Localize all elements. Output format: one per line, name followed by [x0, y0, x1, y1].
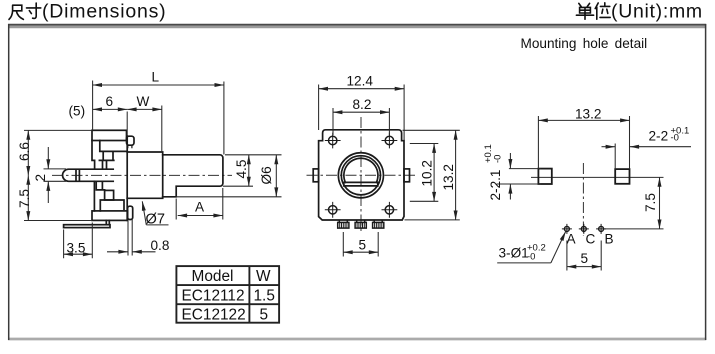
- svg-text:(5): (5): [69, 104, 86, 119]
- svg-text:2-2.1: 2-2.1: [488, 170, 503, 201]
- svg-text:(Dimensions): (Dimensions): [42, 0, 166, 22]
- svg-text:10.2: 10.2: [420, 160, 435, 186]
- svg-text:W: W: [256, 268, 271, 285]
- svg-text:5: 5: [359, 238, 367, 253]
- svg-text:12.4: 12.4: [347, 74, 374, 89]
- svg-text:5: 5: [581, 251, 589, 266]
- svg-text:2-2: 2-2: [649, 129, 669, 144]
- svg-text:(Unit):mm: (Unit):mm: [611, 0, 703, 22]
- svg-text:-0: -0: [527, 252, 535, 263]
- svg-text:3.5: 3.5: [67, 241, 86, 256]
- svg-text:Ø7: Ø7: [146, 212, 165, 228]
- svg-text:C: C: [586, 232, 596, 247]
- svg-text:0.8: 0.8: [151, 238, 170, 253]
- svg-text:Model: Model: [192, 268, 234, 285]
- svg-text:8.2: 8.2: [353, 97, 372, 112]
- svg-text:W: W: [137, 94, 150, 109]
- svg-text:13.2: 13.2: [575, 106, 601, 121]
- svg-text:-0: -0: [671, 133, 679, 144]
- svg-text:EC12122: EC12122: [182, 306, 246, 323]
- svg-text:6: 6: [106, 94, 114, 109]
- svg-text:7.5: 7.5: [643, 193, 658, 212]
- svg-text:2: 2: [33, 174, 48, 182]
- svg-text:3-Ø1: 3-Ø1: [499, 246, 529, 261]
- svg-text:-0: -0: [493, 155, 504, 163]
- svg-text:A: A: [195, 200, 205, 215]
- svg-text:Mounting hole detail: Mounting hole detail: [521, 36, 648, 51]
- svg-text:5: 5: [260, 306, 269, 323]
- svg-text:A: A: [567, 232, 577, 247]
- svg-text:EC12112: EC12112: [182, 287, 245, 304]
- svg-text:4.5: 4.5: [234, 160, 249, 179]
- svg-text:B: B: [605, 232, 614, 247]
- svg-text:6.6: 6.6: [17, 142, 32, 161]
- svg-text:L: L: [152, 70, 160, 85]
- svg-text:1.5: 1.5: [254, 287, 275, 304]
- svg-text:Ø6: Ø6: [259, 166, 274, 184]
- svg-text:13.2: 13.2: [441, 164, 456, 190]
- svg-text:7.5: 7.5: [17, 189, 32, 208]
